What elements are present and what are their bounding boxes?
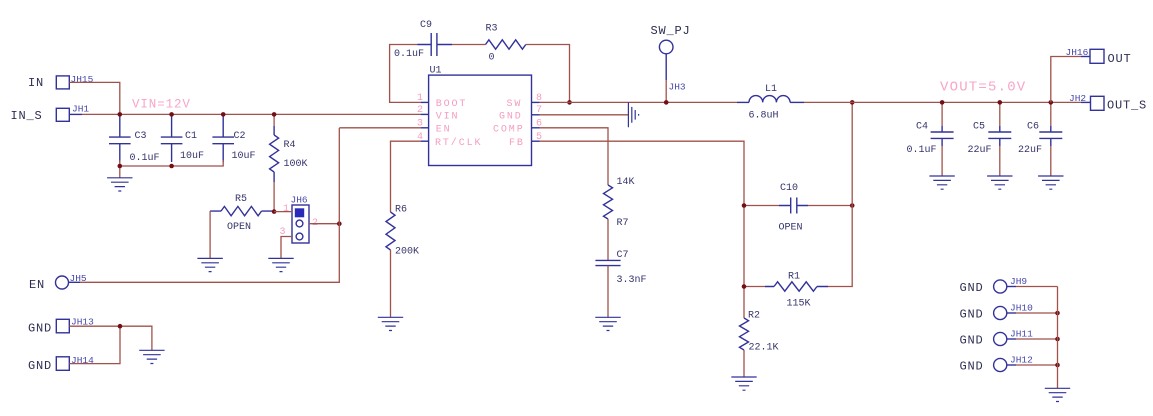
svg-text:C6: C6 — [1027, 122, 1039, 133]
svg-text:3.3nF: 3.3nF — [617, 275, 647, 286]
svg-text:GND: GND — [28, 322, 52, 336]
svg-text:C3: C3 — [135, 131, 147, 142]
svg-text:C7: C7 — [617, 250, 629, 261]
svg-text:JH9: JH9 — [1010, 276, 1027, 287]
U1 pin 6 COMP stub — [532, 127, 540, 129]
svg-text:22uF: 22uF — [1018, 145, 1042, 156]
wire R5 left to ground — [209, 211, 211, 258]
resistor R4 — [273, 114, 275, 126]
junction bottom C3 — [118, 164, 123, 169]
JH6 pin 3 pad — [296, 233, 303, 240]
wire R6 to ground — [390, 250, 392, 317]
wire R3 to SW — [526, 45, 570, 103]
wire JH6 pin2 to EN riser — [309, 223, 339, 225]
svg-text:200K: 200K — [395, 247, 419, 258]
header JH12 — [994, 358, 1007, 371]
header JH13 — [56, 319, 69, 333]
svg-text:0: 0 — [489, 53, 495, 64]
junction VOUT-C5 — [998, 100, 1003, 105]
svg-text:IN_S: IN_S — [11, 109, 43, 123]
wire FB to divider — [540, 141, 745, 318]
resistor R6 — [386, 212, 395, 250]
wire GND pin to ground — [540, 114, 629, 116]
svg-text:C2: C2 — [234, 131, 246, 142]
resistor R5 — [210, 210, 274, 212]
header JH15 — [56, 76, 69, 89]
svg-text:0.1uF: 0.1uF — [907, 145, 937, 156]
U1 pin 8 SW stub — [532, 101, 540, 103]
header JH2 — [1091, 96, 1105, 110]
resistor R2 — [740, 318, 749, 350]
wire RT/CLK to R6 — [391, 141, 421, 212]
header JH5 — [56, 276, 69, 289]
capacitor C7 — [595, 260, 620, 265]
svg-text:JH2: JH2 — [1069, 93, 1086, 104]
svg-text:C9: C9 — [420, 20, 432, 31]
resistor R1 — [744, 286, 765, 288]
svg-text:100K: 100K — [284, 159, 308, 170]
svg-text:JH1: JH1 — [72, 104, 89, 115]
ground (rotated) at pin 7 — [628, 102, 638, 127]
header JH11 — [994, 332, 1007, 345]
svg-text:JH10: JH10 — [1010, 303, 1033, 314]
svg-text:IN: IN — [28, 76, 44, 90]
svg-text:2: 2 — [417, 105, 423, 116]
junction GND bus JH12 — [1055, 363, 1060, 368]
svg-text:22uF: 22uF — [968, 145, 992, 156]
svg-text:GND: GND — [499, 111, 523, 122]
svg-text:115K: 115K — [787, 299, 811, 310]
svg-text:C10: C10 — [780, 183, 798, 194]
svg-text:SW: SW — [507, 99, 523, 110]
U1 pin 7 GND stub — [532, 114, 540, 116]
svg-text:U1: U1 — [430, 66, 442, 77]
wire VOUT rail — [804, 101, 1081, 103]
svg-text:EN: EN — [436, 124, 452, 135]
inductor L1 — [737, 101, 749, 103]
svg-text:JH6: JH6 — [291, 195, 308, 206]
svg-text:OUT: OUT — [1108, 52, 1132, 66]
header JH10 — [994, 306, 1007, 319]
junction GND bus JH10 — [1055, 311, 1060, 316]
svg-text:R2: R2 — [748, 310, 760, 321]
svg-text:10uF: 10uF — [180, 151, 204, 162]
wire C10 right — [810, 205, 852, 207]
svg-text:22.1K: 22.1K — [749, 343, 779, 354]
wire JH6 pin3 to ground — [281, 237, 292, 259]
wire R1 right riser — [830, 102, 852, 286]
svg-text:EN: EN — [29, 278, 45, 292]
wire C3 lead to ground — [119, 166, 121, 178]
svg-text:0.1uF: 0.1uF — [130, 153, 160, 164]
svg-text:R6: R6 — [395, 205, 407, 216]
svg-text:FB: FB — [509, 138, 525, 149]
junction FB-R1 — [742, 284, 747, 289]
ground below C5 — [987, 176, 1012, 189]
svg-text:VOUT=5.0V: VOUT=5.0V — [940, 79, 1026, 95]
svg-text:SW_PJ: SW_PJ — [651, 24, 691, 38]
junction GND bus JH11 — [1055, 337, 1060, 342]
header JH9 — [994, 280, 1007, 293]
wire JH13 to ground — [69, 326, 152, 350]
ground below C6 — [1038, 176, 1063, 189]
svg-text:R3: R3 — [486, 24, 498, 35]
JH6 pin 2 pad — [296, 220, 303, 227]
svg-text:OPEN: OPEN — [779, 223, 803, 234]
wire BOOT loop — [390, 45, 421, 103]
capacitor C5 — [999, 102, 1001, 126]
U1 pin 1 BOOT stub — [421, 101, 429, 103]
svg-text:JH15: JH15 — [71, 74, 94, 85]
ground below JH6 — [268, 258, 293, 271]
wire cap bottoms — [120, 160, 223, 166]
wire R2 to ground — [743, 350, 745, 377]
capacitor C9 — [418, 44, 453, 46]
svg-text:R5: R5 — [235, 194, 247, 205]
svg-text:VIN: VIN — [436, 111, 460, 122]
junction VIN-C3 — [118, 112, 123, 117]
wire R7 to C7 — [607, 219, 609, 260]
capacitor C4 — [941, 102, 943, 126]
ground below C7 — [595, 317, 620, 330]
junction VOUT riser — [850, 100, 855, 105]
header JH14 — [56, 357, 69, 371]
JH6 pin 1 pad — [295, 208, 304, 217]
svg-text:RT/CLK: RT/CLK — [435, 137, 482, 149]
header JH1 — [56, 108, 69, 121]
junction VIN-R4 — [272, 112, 277, 117]
wire C9 to R3 — [452, 44, 486, 46]
svg-text:GND: GND — [960, 308, 984, 322]
wire JH9 — [1007, 286, 1016, 288]
ground below C3 — [107, 178, 132, 191]
U1 pin 2 VIN stub — [421, 113, 429, 115]
wire JH16 to VOUT — [1081, 56, 1090, 58]
capacitor C1 — [171, 114, 173, 162]
header JH6 — [292, 205, 309, 243]
ground below R2 — [731, 377, 756, 390]
junction VOUT-C6 — [1049, 100, 1054, 105]
resistor R7 — [604, 185, 613, 219]
svg-text:JH11: JH11 — [1010, 329, 1033, 340]
wire SW rail — [540, 101, 738, 103]
svg-text:C4: C4 — [916, 122, 928, 133]
capacitor C3 — [119, 114, 121, 162]
svg-text:OPEN: OPEN — [227, 222, 251, 233]
wire JH11 — [1007, 338, 1016, 340]
junction EN riser — [337, 221, 342, 226]
svg-text:VIN=12V: VIN=12V — [132, 98, 191, 112]
ground for JH13/JH14 — [139, 350, 164, 363]
svg-text:6.8uH: 6.8uH — [749, 110, 779, 121]
junction SW-R3 — [567, 100, 572, 105]
wire C7 to ground — [607, 266, 609, 318]
junction JH3 — [664, 100, 669, 105]
ground for GND headers — [1045, 388, 1070, 401]
svg-text:JH12: JH12 — [1010, 355, 1033, 366]
junction JH13/JH14 — [118, 324, 123, 329]
wire EN net — [69, 281, 81, 283]
junction VOUT-C4 — [940, 100, 945, 105]
svg-text:L1: L1 — [765, 84, 777, 95]
svg-text:BOOT: BOOT — [436, 99, 468, 110]
wire VIN rail — [69, 113, 82, 115]
U1 pin 3 EN stub — [421, 127, 429, 129]
svg-text:OUT_S: OUT_S — [1107, 99, 1147, 113]
svg-text:1: 1 — [283, 204, 289, 215]
svg-text:R7: R7 — [617, 218, 629, 229]
ground below C4 — [929, 176, 954, 189]
ground below R6 — [378, 317, 403, 330]
svg-text:10uF: 10uF — [232, 151, 256, 162]
svg-text:GND: GND — [28, 359, 52, 373]
junction R4-R5-JH6 — [272, 209, 277, 214]
U1 pin 4 RT/CLK stub — [421, 140, 429, 142]
svg-text:14K: 14K — [617, 177, 635, 188]
capacitor C2 — [222, 114, 224, 162]
svg-text:3: 3 — [417, 119, 423, 130]
op-amp U1 body — [429, 75, 532, 165]
wire JH15 to VIN rail — [69, 82, 120, 114]
U1 pin 5 FB stub — [532, 140, 540, 142]
wire GND bus — [1057, 287, 1059, 389]
header SW_PJ — [659, 40, 673, 54]
svg-text:C5: C5 — [973, 122, 985, 133]
junction VIN-C1 — [169, 112, 174, 117]
junction VIN-C2 — [221, 112, 226, 117]
svg-text:GND: GND — [960, 360, 984, 374]
resistor R3 — [486, 40, 526, 49]
junction bottom C1 — [169, 164, 174, 169]
svg-text:COMP: COMP — [493, 124, 525, 135]
junction C10 right — [850, 203, 855, 208]
wire JH10 — [1007, 312, 1016, 314]
wire SW_PJ drop — [665, 54, 667, 80]
svg-text:JH3: JH3 — [669, 82, 686, 93]
svg-text:GND: GND — [960, 334, 984, 348]
capacitor C10 — [744, 205, 779, 207]
svg-text:JH14: JH14 — [71, 355, 94, 366]
wire JH12 — [1007, 364, 1016, 366]
wire JH14 riser — [69, 326, 120, 363]
capacitor C6 — [1050, 102, 1052, 126]
wire COMP to R7 — [540, 128, 609, 185]
svg-text:C1: C1 — [185, 131, 197, 142]
svg-text:0.1uF: 0.1uF — [394, 49, 424, 60]
ground below R5 — [197, 258, 222, 271]
svg-text:GND: GND — [960, 281, 984, 295]
header JH16 — [1090, 49, 1104, 63]
junction FB-C10 — [742, 203, 747, 208]
svg-text:R4: R4 — [284, 140, 296, 151]
svg-text:R1: R1 — [788, 272, 800, 283]
wire JH6 pin1 — [274, 211, 292, 213]
